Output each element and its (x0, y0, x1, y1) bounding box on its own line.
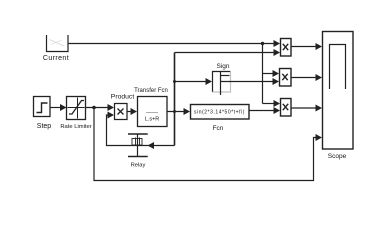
svg-text:Sign: Sign (216, 63, 229, 70)
wire Current to Product1 top input (68, 43, 274, 45)
block Product3 (281, 99, 292, 117)
wire Transfer Fcn to Fcn (167, 111, 184, 113)
wire J4 to Sign (175, 81, 206, 83)
block Product1 (281, 39, 292, 57)
node J1 (261, 42, 264, 45)
wire Product1 to Scope (291, 46, 316, 48)
block Step (34, 97, 51, 117)
block Scope (323, 32, 354, 150)
block Sign (213, 72, 231, 96)
svg-text:sin(2*3.14*50*t+fi): sin(2*3.14*50*t+fi) (194, 110, 245, 116)
svg-text:Current: Current (43, 55, 69, 62)
node J4 (173, 80, 176, 83)
block Current (47, 35, 69, 52)
svg-text:L.s+R: L.s+R (145, 117, 160, 123)
wire J3 down to Relay input (107, 115, 175, 146)
block Product (115, 104, 128, 120)
wire Product2 to Scope (291, 77, 316, 79)
svg-text:Scope: Scope (328, 153, 347, 160)
block Transfer Fcn (138, 97, 168, 127)
wire Rate Limiter to Product (86, 107, 108, 109)
svg-text:Product: Product (111, 94, 135, 101)
node J3 (173, 110, 176, 113)
svg-text:Rate Limiter: Rate Limiter (60, 124, 91, 130)
wire J3 vertical (174, 53, 176, 146)
block Relay (128, 134, 148, 158)
port arrow Product input 2 (108, 112, 115, 119)
port arrow Product1 input 1 (274, 40, 281, 47)
block Fcn (191, 105, 250, 120)
wire Product3 to Scope (291, 107, 316, 109)
node J2 (92, 106, 96, 110)
wire Fcn to Product3 bottom input (249, 110, 274, 112)
wire Step to Rate Limiter (50, 107, 60, 109)
wire Product to Transfer Fcn (127, 111, 131, 113)
wire Sign to Product2 bottom input (221, 81, 273, 83)
svg-text:Fcn: Fcn (213, 125, 224, 132)
block Rate Limiter (67, 97, 86, 120)
arrow into Relay (pointing left) (148, 142, 155, 149)
svg-text:Transfer Fcn: Transfer Fcn (134, 88, 168, 94)
wire J1 down branch (262, 44, 264, 104)
svg-text:Step: Step (37, 123, 52, 130)
wire J3 up to Product1 bottom input (175, 52, 274, 54)
svg-text:Relay: Relay (131, 163, 146, 169)
wire J2 bottom feedback loop to Scope (94, 108, 316, 181)
wire branch to Product2 top input (263, 73, 273, 75)
block Product2 (280, 69, 292, 87)
wire branch to Product3 top input (263, 103, 274, 105)
